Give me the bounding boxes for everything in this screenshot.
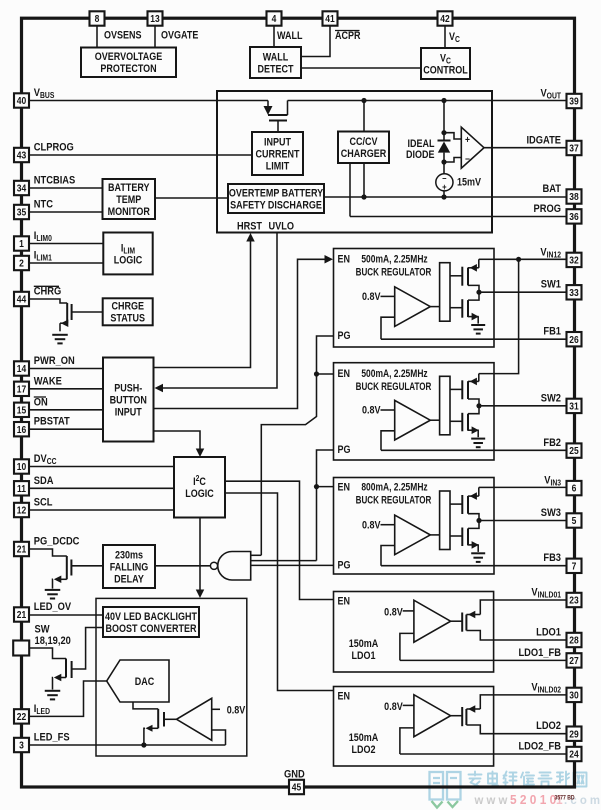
svg-text:3: 3 [19,740,24,751]
svg-text:BAT: BAT [543,183,562,195]
svg-text:34: 34 [17,183,27,194]
svg-text:28: 28 [569,635,578,646]
svg-text:EN: EN [338,482,351,494]
svg-text:WALL: WALL [263,52,289,64]
svg-text:NTC: NTC [34,199,54,211]
svg-text:150mA: 150mA [349,732,379,744]
svg-text:FB1: FB1 [543,326,561,338]
svg-text:PG: PG [338,560,351,572]
svg-text:BUCK REGULATOR: BUCK REGULATOR [356,493,432,505]
svg-text:25: 25 [569,446,578,457]
svg-text:w w w .: w w w . [474,794,514,807]
svg-text:LDO2: LDO2 [536,720,561,732]
svg-text:LOGIC: LOGIC [185,488,214,500]
svg-text:BOOST CONVERTER: BOOST CONVERTER [105,623,196,635]
svg-text:PROTECTON: PROTECTON [100,63,156,75]
svg-text:FB3: FB3 [543,553,561,565]
svg-text:EN: EN [338,254,351,266]
svg-text:16: 16 [17,424,26,435]
svg-text:NTCBIAS: NTCBIAS [34,175,76,187]
svg-text:4: 4 [272,13,277,24]
svg-text:21: 21 [17,544,26,555]
svg-text:–: – [465,153,470,164]
svg-text:500mA, 2.25MHz: 500mA, 2.25MHz [361,254,428,266]
svg-text:33: 33 [569,287,578,298]
svg-text:0.8V: 0.8V [362,405,381,417]
svg-text:FALLING: FALLING [110,562,149,574]
svg-text:WALL: WALL [277,30,303,42]
svg-text:LED_OV: LED_OV [34,601,72,613]
svg-text:15: 15 [17,405,26,416]
svg-text:SW: SW [35,624,50,636]
svg-text:TEMP: TEMP [116,194,141,206]
svg-text:0.8V: 0.8V [362,520,381,532]
svg-text:1: 1 [19,238,24,249]
svg-text:7: 7 [572,561,577,572]
svg-text:ACPR: ACPR [335,30,361,42]
svg-text:EN: EN [338,368,351,380]
svg-text:+: + [465,134,470,145]
svg-text:CC/CV: CC/CV [349,136,377,148]
svg-text:UVLO: UVLO [269,221,295,233]
svg-text:EN: EN [338,691,351,703]
svg-text:11: 11 [17,483,26,494]
svg-text:5 2 0 1 0: 5 2 0 1 0 [510,793,556,807]
svg-text:HRST: HRST [237,221,263,233]
svg-text:6: 6 [572,483,577,494]
svg-text:40: 40 [17,95,26,106]
svg-text:LDO1_FB: LDO1_FB [518,647,561,659]
svg-text:CHARGER: CHARGER [341,148,387,160]
svg-text:SDA: SDA [34,475,54,487]
svg-text:17: 17 [17,384,26,395]
svg-text:15mV: 15mV [457,177,481,189]
svg-text:CONTROL: CONTROL [423,65,468,77]
svg-text:SW3: SW3 [541,507,562,519]
svg-text:PG: PG [338,331,351,343]
svg-text:39: 39 [569,96,578,107]
svg-text:13: 13 [150,13,159,24]
svg-text:44: 44 [17,294,27,305]
svg-text:OVERTEMP BATTERY: OVERTEMP BATTERY [229,188,324,200]
svg-text:230ms: 230ms [115,550,144,562]
svg-text:FB2: FB2 [543,437,561,449]
svg-text:LIMIT: LIMIT [266,161,289,173]
svg-text:STATUS: STATUS [110,313,145,325]
svg-text:SW1: SW1 [541,279,562,291]
svg-text:CLPROG: CLPROG [34,142,74,154]
svg-text:0.8V: 0.8V [362,291,381,303]
svg-text:PROG: PROG [534,203,562,215]
svg-text:0.8V: 0.8V [384,607,403,619]
svg-text:31: 31 [569,401,578,412]
svg-text:21: 21 [17,609,26,620]
svg-text:DETECT: DETECT [257,64,293,76]
svg-text:29: 29 [569,729,578,740]
svg-text:10: 10 [17,461,26,472]
svg-text:PBSTAT: PBSTAT [34,416,71,428]
svg-text:22: 22 [17,711,26,722]
svg-text:MONITOR: MONITOR [108,206,150,218]
svg-text:40V LED BACKLIGHT: 40V LED BACKLIGHT [105,611,197,623]
svg-text:14: 14 [17,363,27,374]
svg-text:PWR_ON: PWR_ON [34,355,75,367]
svg-text:INPUT: INPUT [264,137,291,149]
svg-text:800mA, 2.25MHz: 800mA, 2.25MHz [361,482,428,494]
svg-text:EN: EN [338,596,351,608]
svg-text:32: 32 [569,255,578,266]
svg-text:SCL: SCL [34,497,53,509]
svg-text:18,19,20: 18,19,20 [35,635,72,647]
svg-text:WAKE: WAKE [34,376,62,388]
svg-text:27: 27 [569,655,578,666]
svg-text:GND: GND [284,769,305,781]
svg-text:IDGATE: IDGATE [526,135,561,147]
svg-text:BUCK REGULATOR: BUCK REGULATOR [356,265,432,277]
svg-text:LDO2_FB: LDO2_FB [518,741,561,753]
svg-text:OVGATE: OVGATE [161,30,199,42]
svg-text:SW2: SW2 [541,393,562,405]
svg-text:0.8V: 0.8V [384,701,403,713]
svg-text:LDO1: LDO1 [351,650,375,662]
svg-text:SAFETY DISCHARGE: SAFETY DISCHARGE [230,200,322,212]
svg-text:DELAY: DELAY [114,574,144,586]
svg-text:42: 42 [440,13,449,24]
svg-text:38: 38 [569,191,578,202]
svg-text:OVSENS: OVSENS [104,30,142,42]
svg-text:8: 8 [95,13,100,24]
svg-text:LOGIC: LOGIC [114,255,143,267]
svg-text:0.8V: 0.8V [227,705,246,717]
svg-text:30: 30 [569,690,578,701]
svg-text:INPUT: INPUT [115,407,142,419]
svg-text:DIODE: DIODE [406,149,435,161]
svg-text:BUCK REGULATOR: BUCK REGULATOR [356,380,432,392]
svg-text:3577 BD: 3577 BD [555,795,575,801]
svg-text:26: 26 [569,334,578,345]
svg-text:PG_DCDC: PG_DCDC [34,536,80,548]
svg-text:36: 36 [569,211,578,222]
svg-text:23: 23 [569,595,578,606]
svg-text:CHRGE: CHRGE [111,301,144,313]
svg-text:43: 43 [17,150,26,161]
svg-text:CURRENT: CURRENT [255,149,299,161]
svg-text:12: 12 [17,505,26,516]
svg-text:BUTTON: BUTTON [110,395,147,407]
svg-text:BATTERY: BATTERY [108,182,150,194]
svg-text:DAC: DAC [135,676,155,688]
svg-text:OVERVOLTAGE: OVERVOLTAGE [95,51,163,63]
svg-text:PUSH-: PUSH- [114,383,142,395]
svg-text:ON: ON [34,397,48,409]
svg-text:CHRG: CHRG [34,286,62,298]
svg-text:45: 45 [292,782,301,793]
svg-text:150mA: 150mA [349,638,379,650]
svg-text:35: 35 [17,207,26,218]
svg-text:I2C: I2C [193,474,206,489]
svg-text:500mA, 2.25MHz: 500mA, 2.25MHz [361,368,428,380]
svg-text:LDO2: LDO2 [351,744,375,756]
svg-text:LDO1: LDO1 [536,627,561,639]
svg-text:2: 2 [19,258,24,269]
svg-text:24: 24 [569,749,579,760]
svg-text:+: + [442,182,447,193]
svg-text:41: 41 [325,13,334,24]
svg-text:37: 37 [569,143,578,154]
svg-text:LED_FS: LED_FS [34,732,70,744]
svg-text:PG: PG [338,445,351,457]
svg-text:5: 5 [572,515,577,526]
